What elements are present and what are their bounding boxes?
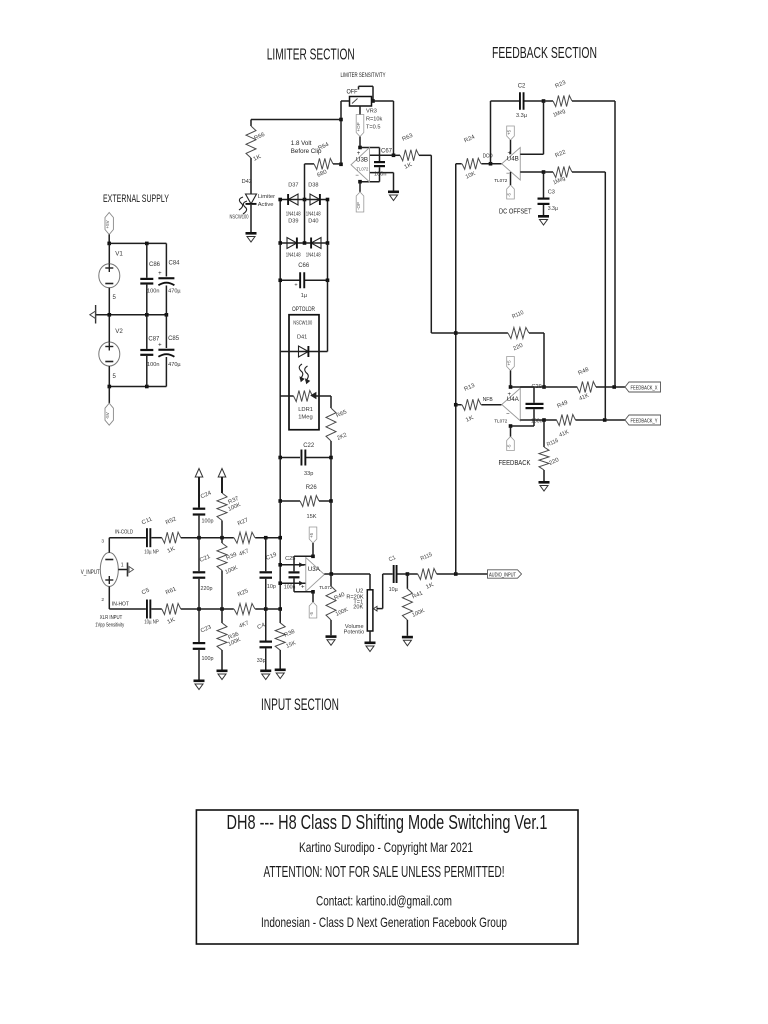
svg-text:3: 3 <box>101 539 104 545</box>
svg-text:+: + <box>301 584 305 590</box>
svg-text:470µ: 470µ <box>168 362 181 368</box>
svg-text:C2: C2 <box>518 84 526 90</box>
svg-text:−: − <box>355 173 359 179</box>
svg-text:Limiter: Limiter <box>258 194 275 200</box>
svg-text:EXTERNAL SUPPLY: EXTERNAL SUPPLY <box>103 193 169 205</box>
svg-text:XLR INPUT: XLR INPUT <box>100 615 123 621</box>
svg-text:−: − <box>506 171 510 177</box>
svg-text:470µ: 470µ <box>168 289 181 295</box>
svg-text:V_INPUT: V_INPUT <box>81 570 100 576</box>
svg-text:LIMITER SENSITIVITY: LIMITER SENSITIVITY <box>341 72 386 79</box>
svg-text:20K: 20K <box>353 604 363 610</box>
svg-text:10µ NP: 10µ NP <box>144 549 159 555</box>
svg-text:33p: 33p <box>257 658 266 664</box>
svg-text:D42: D42 <box>242 179 253 185</box>
svg-text:FEEDBACK SECTION: FEEDBACK SECTION <box>492 45 597 62</box>
svg-text:R=10k: R=10k <box>366 117 383 123</box>
svg-text:C84: C84 <box>169 261 181 267</box>
svg-text:T=0.5: T=0.5 <box>366 125 380 131</box>
svg-text:NFB: NFB <box>483 397 493 403</box>
svg-text:FEEDBACK_Y: FEEDBACK_Y <box>631 418 659 424</box>
svg-text:1N4148: 1N4148 <box>306 212 321 218</box>
svg-text:TL072: TL072 <box>357 167 370 172</box>
svg-text:NSCW100: NSCW100 <box>230 215 249 221</box>
svg-text:D37: D37 <box>288 182 298 188</box>
svg-text:AUDIO_INPUT: AUDIO_INPUT <box>489 572 516 578</box>
svg-text:D41: D41 <box>297 335 307 341</box>
svg-text:U3A: U3A <box>308 566 321 573</box>
svg-text:10µ NP: 10µ NP <box>144 620 159 626</box>
svg-text:IN-HOT: IN-HOT <box>112 602 129 608</box>
svg-text:C85: C85 <box>168 336 180 342</box>
svg-text:1N4148: 1N4148 <box>286 212 301 218</box>
svg-text:+5: +5 <box>507 129 512 135</box>
svg-text:-5: -5 <box>309 612 314 616</box>
svg-text:1Vpp Sensitivity: 1Vpp Sensitivity <box>95 622 124 628</box>
svg-text:1.8 Volt: 1.8 Volt <box>291 140 312 147</box>
svg-text:100n: 100n <box>374 172 386 178</box>
svg-text:IN-COLD: IN-COLD <box>115 530 133 536</box>
svg-text:C25: C25 <box>285 556 295 562</box>
svg-text:NSCW100: NSCW100 <box>293 321 312 327</box>
svg-text:+5: +5 <box>309 532 314 538</box>
svg-text:R26: R26 <box>306 485 318 491</box>
svg-text:Indonesian - Class D Next Gene: Indonesian - Class D Next Generation Fac… <box>261 914 507 930</box>
svg-text:C29: C29 <box>532 384 542 390</box>
svg-text:D38: D38 <box>308 182 318 188</box>
svg-text:+: + <box>507 392 511 398</box>
svg-text:OFF: OFF <box>347 89 358 96</box>
svg-text:Active: Active <box>258 202 274 208</box>
svg-text:U3B: U3B <box>356 156 368 163</box>
svg-text:-5V: -5V <box>105 412 110 419</box>
svg-text:-5: -5 <box>507 444 512 448</box>
svg-text:+5V: +5V <box>105 220 110 228</box>
svg-text:V2: V2 <box>115 328 123 335</box>
svg-text:15K: 15K <box>307 514 317 520</box>
svg-text:INPUT SECTION: INPUT SECTION <box>261 696 339 714</box>
svg-text:3.3µ: 3.3µ <box>516 113 528 119</box>
svg-text:+OP: +OP <box>356 122 361 131</box>
svg-text:100n: 100n <box>147 362 159 368</box>
svg-text:DCO: DCO <box>483 154 493 160</box>
svg-text:Kartino Surodipo - Copyright M: Kartino Surodipo - Copyright Mar 2021 <box>299 839 473 855</box>
svg-text:+: + <box>158 343 162 349</box>
svg-text:220p: 220p <box>201 586 213 592</box>
svg-text:+: + <box>158 271 162 277</box>
svg-text:33p: 33p <box>304 471 313 477</box>
svg-text:D40: D40 <box>308 219 318 225</box>
svg-text:OPTOLDR: OPTOLDR <box>292 306 315 313</box>
svg-text:10µ: 10µ <box>389 587 398 593</box>
svg-text:C86: C86 <box>149 262 161 268</box>
svg-text:+5: +5 <box>507 360 512 366</box>
svg-text:−: − <box>506 412 510 418</box>
svg-text:+: + <box>294 283 297 289</box>
svg-text:1Meg: 1Meg <box>298 415 313 421</box>
svg-text:LDR1: LDR1 <box>298 407 313 413</box>
svg-text:+: + <box>357 151 361 157</box>
svg-text:100n: 100n <box>147 289 159 295</box>
svg-text:Before Clip: Before Clip <box>291 148 322 155</box>
svg-text:-OP: -OP <box>356 202 361 210</box>
svg-text:10p: 10p <box>267 584 276 590</box>
svg-text:1N4148: 1N4148 <box>286 253 301 259</box>
svg-text:C3: C3 <box>548 190 555 196</box>
svg-text:100n: 100n <box>284 585 296 591</box>
svg-text:FEEDBACK: FEEDBACK <box>499 460 531 467</box>
svg-text:1: 1 <box>121 563 124 569</box>
svg-text:100p: 100p <box>202 656 214 662</box>
svg-text:-5: -5 <box>507 193 512 197</box>
svg-text:FEEDBACK_X: FEEDBACK_X <box>631 385 659 391</box>
svg-text:TL072: TL072 <box>494 419 507 424</box>
svg-text:ATTENTION: NOT FOR SALE UNLESS: ATTENTION: NOT FOR SALE UNLESS PERMITTED… <box>264 864 505 881</box>
svg-text:1µ: 1µ <box>301 293 308 299</box>
svg-text:LIMITER SECTION: LIMITER SECTION <box>267 47 355 64</box>
svg-text:3.3µ: 3.3µ <box>548 206 558 212</box>
svg-text:100n: 100n <box>531 418 543 424</box>
svg-text:100p: 100p <box>202 518 214 524</box>
svg-text:−: − <box>301 564 305 570</box>
svg-text:DH8 --- H8 Class D Shifting Mo: DH8 --- H8 Class D Shifting Mode Switchi… <box>227 811 548 834</box>
svg-text:TL072: TL072 <box>494 178 507 183</box>
svg-text:V1: V1 <box>115 251 123 258</box>
svg-text:D39: D39 <box>288 219 298 225</box>
svg-text:C67: C67 <box>381 149 393 155</box>
svg-text:VR3: VR3 <box>366 109 377 115</box>
svg-text:1N4148: 1N4148 <box>306 253 321 259</box>
svg-text:DC OFFSET: DC OFFSET <box>499 209 532 216</box>
svg-text:2: 2 <box>101 597 104 603</box>
svg-text:Contact: kartino.id@gmail.com: Contact: kartino.id@gmail.com <box>316 893 452 909</box>
svg-text:C66: C66 <box>298 263 310 269</box>
svg-text:C22: C22 <box>303 443 315 449</box>
svg-text:Potentio: Potentio <box>344 629 365 635</box>
